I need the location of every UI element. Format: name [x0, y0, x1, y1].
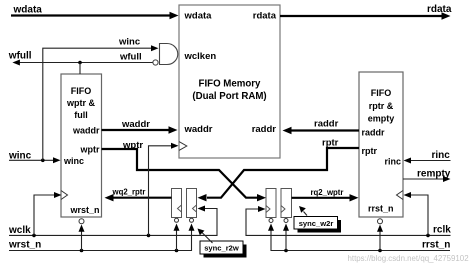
svg-text:wfull: wfull	[119, 52, 142, 63]
svg-text:wptr: wptr	[80, 145, 100, 155]
wire rrst_n rail	[268, 224, 450, 253]
svg-text:rinc: rinc	[384, 157, 401, 167]
svg-text:winc: winc	[63, 156, 84, 166]
svg-text:wdata: wdata	[184, 11, 213, 22]
wire wrst_n rail	[8, 224, 195, 253]
write pointer block (FIFO wptr & full)	[61, 74, 102, 217]
sync_w2r flip-flop FF3	[266, 189, 276, 223]
wire rdata bus	[280, 4, 452, 20]
wire wfull output	[8, 51, 153, 66]
svg-text:wptr &: wptr &	[66, 98, 95, 108]
sync_r2w flip-flop FF2	[187, 189, 197, 223]
write block clock wedge	[61, 191, 68, 200]
wire rclk rail	[246, 206, 451, 237]
write block reset bubble	[79, 219, 84, 224]
wire wfull branch from write block top	[79, 63, 81, 75]
watermark	[348, 254, 469, 263]
svg-text:rrst_n: rrst_n	[422, 240, 450, 251]
and-gate G1 (wclken = winc & !wfull)	[153, 44, 178, 66]
svg-text:sync_w2r: sync_w2r	[299, 219, 334, 228]
wire waddr bus	[102, 119, 178, 134]
svg-text:sync_r2w: sync_r2w	[204, 244, 239, 253]
wire rrst_n branch to read block	[377, 225, 383, 251]
svg-text:rptr: rptr	[362, 146, 378, 156]
svg-text:https://blog.csdn.net/qq_42759: https://blog.csdn.net/qq_42759102	[348, 254, 469, 263]
svg-text:rinc: rinc	[432, 150, 451, 161]
svg-text:waddr: waddr	[72, 126, 100, 136]
wire wclk rail	[8, 206, 217, 238]
svg-text:waddr: waddr	[121, 119, 150, 130]
sync_r2w flip-flop FF1	[172, 189, 182, 223]
FIFO Memory U1 (dual-port RAM)	[179, 5, 280, 158]
sync_w2r label	[294, 206, 341, 233]
sync_r2w label	[198, 229, 247, 258]
svg-text:(Dual Port RAM): (Dual Port RAM)	[192, 91, 266, 102]
wire rinc input	[404, 150, 451, 164]
svg-text:rq2_wptr: rq2_wptr	[311, 188, 344, 197]
svg-text:raddr: raddr	[252, 124, 277, 135]
svg-text:empty: empty	[368, 114, 395, 124]
wire wptr bus to sync_w2r	[102, 140, 267, 202]
wire rq2_wptr bus	[292, 188, 359, 202]
wire wrst_n branch to FF1	[174, 224, 180, 251]
svg-text:rdata: rdata	[427, 4, 452, 15]
wire wdata bus	[11, 5, 179, 20]
svg-text:rdata: rdata	[253, 11, 277, 22]
svg-text:wclk: wclk	[8, 225, 31, 236]
wire rptr bus to sync_r2w	[198, 138, 360, 202]
wire raddr bus	[283, 119, 360, 135]
svg-text:wq2_rptr: wq2_rptr	[112, 188, 146, 197]
svg-text:wrst_n: wrst_n	[69, 205, 99, 215]
svg-text:wclken: wclken	[184, 51, 217, 62]
svg-text:rptr: rptr	[322, 138, 339, 149]
wire wrst_n branch to write block	[79, 225, 85, 251]
svg-text:FIFO Memory: FIFO Memory	[199, 79, 262, 90]
wire rclk branch to read block	[404, 192, 429, 235]
wire winc input	[8, 151, 61, 164]
sync_w2r flip-flop FF4	[281, 189, 292, 223]
svg-text:raddr: raddr	[362, 128, 386, 138]
read block reset bubble	[378, 219, 383, 224]
wire wq2_rptr bus	[105, 188, 172, 202]
wire winc branch to gate	[43, 37, 159, 161]
read block clock wedge	[397, 191, 404, 200]
svg-text:waddr: waddr	[184, 124, 213, 135]
svg-text:raddr: raddr	[314, 119, 339, 130]
wire wclk branch to write block	[34, 192, 62, 235]
svg-text:FIFO: FIFO	[371, 88, 392, 98]
wire wclk branch to RAM	[149, 143, 179, 236]
wire rempty output	[403, 169, 451, 183]
svg-text:winc: winc	[118, 37, 140, 48]
svg-text:wrst_n: wrst_n	[8, 240, 41, 251]
svg-text:full: full	[74, 110, 88, 120]
U1 wclk clock wedge	[179, 142, 187, 151]
wire rrst_n branch to FF4	[283, 224, 289, 251]
read pointer block (FIFO rptr & empty)	[359, 72, 403, 217]
svg-text:rclk: rclk	[433, 225, 451, 236]
svg-text:wdata: wdata	[13, 5, 43, 16]
svg-text:FIFO: FIFO	[71, 86, 92, 96]
svg-text:rptr &: rptr &	[369, 101, 394, 111]
svg-text:rrst_n: rrst_n	[368, 204, 394, 214]
